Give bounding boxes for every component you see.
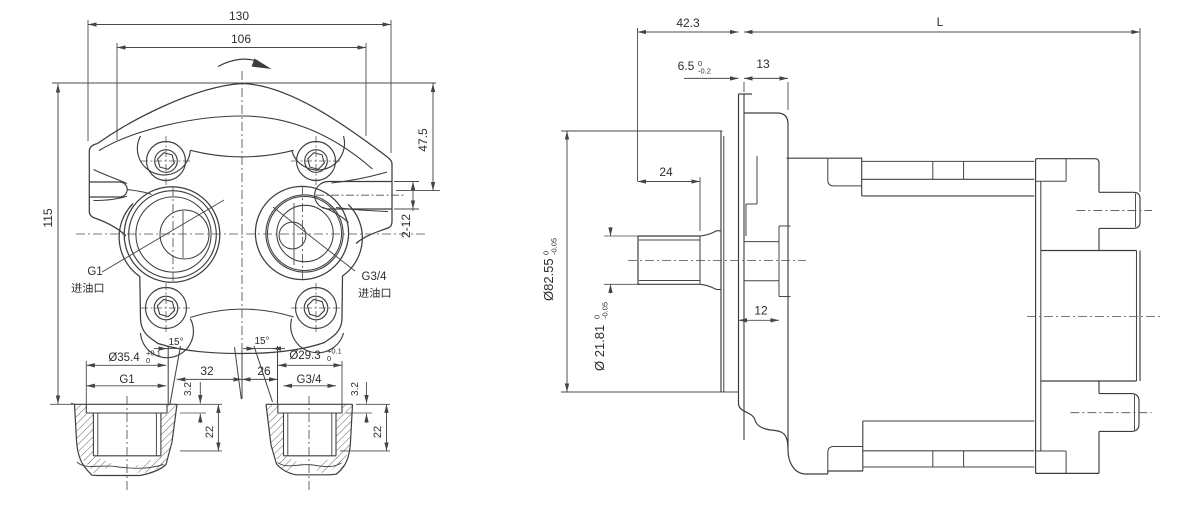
svg-text:42.3: 42.3	[676, 16, 700, 30]
port G1 (left, inlet)	[124, 187, 220, 283]
dimension 2-12	[394, 182, 419, 239]
port centerline right	[302, 186, 304, 281]
dimension 106	[117, 32, 366, 140]
svg-text:15°: 15°	[168, 337, 183, 348]
dimension 13	[744, 57, 788, 110]
svg-text:12: 12	[754, 304, 768, 318]
bearing pocket	[779, 226, 791, 297]
upper rear port boss	[1076, 192, 1152, 228]
lower rear port boss	[1070, 394, 1151, 432]
right wing pad	[332, 172, 388, 183]
vertical centerline	[241, 71, 243, 352]
rotation direction arrow	[218, 59, 272, 70]
svg-text:Ø82.55: Ø82.55	[541, 258, 556, 301]
mounting flange plate	[739, 94, 807, 474]
dimension 115	[41, 83, 436, 404]
G1 port section cup	[75, 403, 178, 405]
svg-text:G3/4: G3/4	[297, 374, 323, 386]
svg-text:13: 13	[756, 57, 770, 71]
bolt boss B4 (bottom-right)	[291, 283, 341, 333]
dimension dia 82.55 0/-0.05	[541, 131, 739, 392]
section detail of G1 port	[71, 348, 222, 492]
dimension L	[744, 15, 1140, 192]
mounting pilot dia82.55	[721, 131, 724, 392]
front bearing cover	[744, 113, 788, 448]
dimension 24	[638, 165, 701, 231]
flange contour arcs around bolts	[137, 136, 190, 175]
saddle contour between top bolts	[190, 150, 293, 157]
svg-text:47.5: 47.5	[416, 128, 430, 152]
rear cover	[1036, 159, 1099, 474]
housing outline lower left	[119, 204, 362, 354]
spline shaft	[638, 231, 721, 290]
svg-text:Ø29.3: Ø29.3	[289, 350, 320, 362]
svg-text:32: 32	[200, 364, 214, 378]
bolt boss B1 (top-left)	[141, 136, 191, 186]
svg-text:G1: G1	[119, 374, 134, 386]
pump housing outline	[98, 84, 393, 244]
svg-text:22: 22	[372, 426, 384, 438]
bolt boss B3 (bottom-left)	[141, 283, 191, 333]
dimension 26	[242, 364, 278, 379]
horizontal centerline	[76, 233, 428, 235]
lower contour between bottom bolts	[190, 309, 293, 317]
svg-text:-0.05: -0.05	[601, 302, 610, 319]
svg-text:0: 0	[327, 354, 331, 363]
svg-text:-0.2: -0.2	[698, 66, 711, 75]
dimension 130	[88, 9, 391, 153]
right port thread chamfer 15deg	[243, 336, 285, 404]
svg-text:3.2: 3.2	[350, 382, 361, 396]
svg-text:-0.05: -0.05	[550, 238, 559, 255]
dimension 12	[739, 304, 780, 321]
right mounting ear slot	[315, 182, 392, 210]
dimension 6.5 0/-0.2	[678, 59, 744, 92]
dimension 32	[177, 364, 242, 379]
svg-text:26: 26	[257, 364, 271, 378]
bolt boss B2 (top-right)	[291, 136, 341, 186]
rear outlet boss	[1027, 251, 1160, 382]
leader and label G1	[71, 200, 224, 293]
G3/4 port section cup	[266, 403, 353, 405]
svg-text:6.5: 6.5	[678, 59, 695, 73]
inner arch contour	[99, 116, 373, 169]
svg-text:G1: G1	[87, 266, 102, 278]
main shaft centerline	[628, 260, 806, 262]
svg-text:115: 115	[41, 208, 55, 227]
dimension 42.3	[638, 16, 739, 181]
svg-text:Ø35.4: Ø35.4	[108, 352, 140, 364]
svg-text:2-12: 2-12	[399, 214, 413, 238]
svg-text:24: 24	[659, 165, 673, 179]
svg-text:3.2: 3.2	[183, 382, 194, 396]
svg-text:22: 22	[204, 426, 216, 438]
leader and label G3/4	[273, 207, 390, 298]
svg-text:G3/4: G3/4	[362, 271, 388, 283]
svg-text:0: 0	[146, 356, 150, 365]
left port thread chamfer 15deg	[154, 337, 184, 404]
bottom tie bolt	[806, 421, 1034, 474]
section detail of G3/4 port	[266, 346, 390, 492]
side view of gear pump	[541, 15, 1160, 474]
svg-text:15°: 15°	[254, 336, 269, 347]
dimension 47.5	[396, 84, 440, 191]
svg-text:130: 130	[229, 9, 249, 23]
front view of gear pump	[41, 9, 440, 404]
svg-text:106: 106	[231, 32, 251, 46]
svg-text:L: L	[937, 15, 944, 29]
right slot centerline	[316, 194, 404, 196]
top tie bolt	[787, 158, 1035, 196]
svg-text:Ø 21.81: Ø 21.81	[592, 325, 607, 371]
left wing pad	[94, 170, 128, 184]
center tab chamfer	[235, 347, 242, 399]
left mounting ear slot	[89, 182, 127, 197]
port centerline left	[172, 187, 174, 282]
port G3/4 (right, outlet)	[255, 186, 348, 279]
dimension dia 21.81 0/-0.05	[592, 227, 640, 371]
